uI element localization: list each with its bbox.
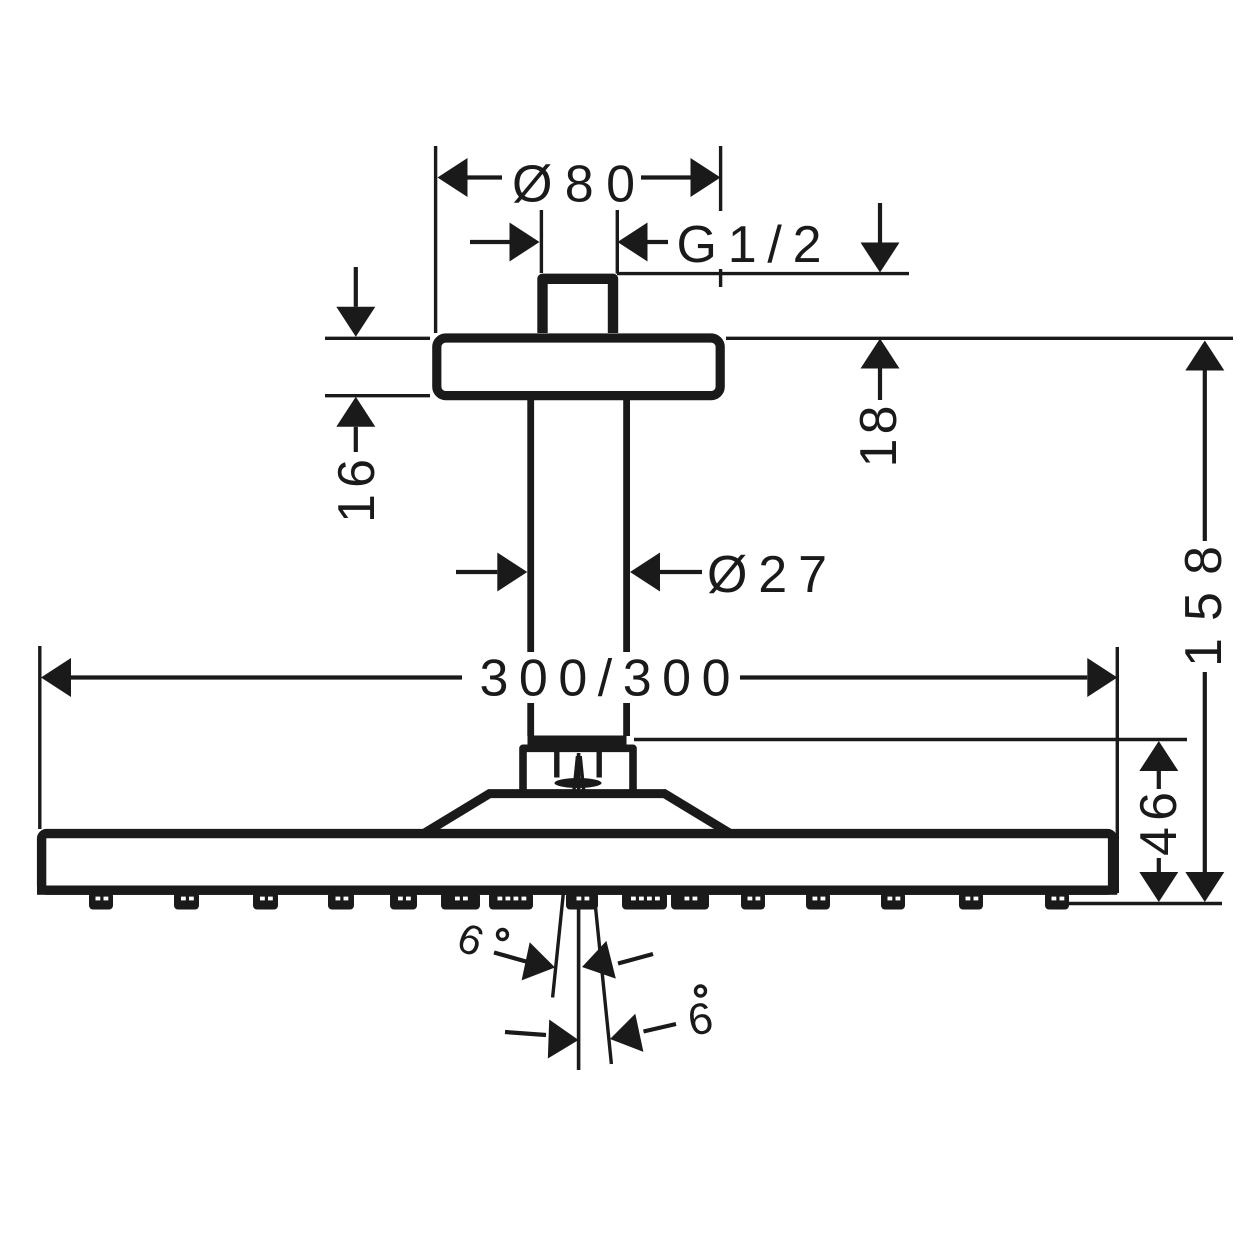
svg-text:Ø27: Ø27 <box>707 546 827 604</box>
svg-text:158: 158 <box>1175 546 1233 667</box>
svg-text:G1/2: G1/2 <box>677 216 822 274</box>
svg-text:Ø80: Ø80 <box>512 156 635 214</box>
